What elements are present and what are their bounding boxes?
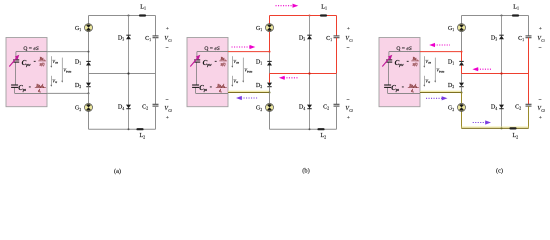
diode D1 [459,61,464,65]
svg-text:(c): (c) [496,168,503,175]
capacitor C2 [334,104,340,106]
wire: internal lead of transducer [15,52,16,94]
wire: left column node A up to top rail [269,16,271,52]
label C2 [323,104,329,111]
wire: D1 to mid node [269,66,271,74]
node B junction [88,92,90,94]
label D4 [491,104,497,111]
wire: node B down to bottom rail [269,93,271,130]
junction: bottom rail / D4 column [501,127,503,129]
label D3 [491,34,497,41]
voltage label Vcm with arrow [231,56,239,68]
current flow arrow along top rail [276,4,299,8]
svg-text:z(t): z(t) [412,63,419,67]
value label Cpw = Bz1/z(t) [203,57,227,67]
label C2 [142,104,148,111]
wire: top rail down to C1 [528,16,530,36]
wire: bottom rail [462,127,529,128]
output voltage label VC2 [537,97,545,120]
wire: node B down to bottom rail [88,93,90,129]
diode D4 [126,105,131,109]
wire: top rail [89,15,156,17]
label G1 [256,25,262,32]
capacitor C1 [526,36,532,38]
wire: box edge to node A [228,51,270,53]
inductor L2 [136,128,143,130]
wire: box edge to node B [47,92,89,94]
current source G2 [266,103,274,111]
label Q = eS [396,46,411,52]
junction: mid rail / D column [127,72,129,74]
wire: top rail [270,15,337,17]
wire: top rail down to C1 [155,16,157,36]
output voltage label VC1 [537,26,545,52]
value label Cps = Bz0d1/dc [18,84,46,94]
current source G1 [458,24,466,32]
wire: C1 down to mid rail [155,38,157,74]
diode D2 [267,83,272,87]
inductor L2 [317,128,324,130]
junction: bottom rail / D4 column [128,128,130,130]
label D2 [256,82,262,89]
diode D4 [499,105,504,109]
wire: mid rail [462,73,529,75]
voltage label Vtrans with arrow [242,58,252,83]
label D3 [299,34,305,41]
svg-text:+: + [539,115,542,121]
label G2 [256,105,262,112]
label C1 [145,35,151,42]
voltage label Vcs with arrow [50,76,57,87]
wire: top rail [462,15,529,17]
label L1 [321,3,327,10]
wire: left column node A up to top rail [88,16,90,52]
capacitor Cpw (variable) [190,55,200,67]
svg-text:−: − [346,97,349,103]
wire: mid rail down to C2 [336,74,338,105]
transducer block c: pink box [379,38,420,107]
diode D3 [126,35,131,39]
svg-text:=: = [34,60,36,64]
label L1 [513,3,519,10]
inductor L2 [509,127,516,129]
node B junction [461,92,463,94]
output voltage label VC2 [164,97,172,120]
wire: bottom rail [89,128,156,130]
label G2 [75,105,81,112]
wire: C2 down to bottom rail [336,106,338,129]
svg-text:z(t): z(t) [39,63,46,67]
voltage label Vcs with arrow [231,76,238,87]
current source G1 [85,24,93,32]
output voltage label VC1 [164,26,172,52]
output voltage label VC1 [345,26,353,52]
svg-text:+: + [539,26,542,32]
wire: box edge to node A [420,51,462,53]
wire: D4 column mid to bottom rail [501,74,503,129]
svg-text:=: = [29,86,31,90]
junction: bottom rail / D4 column [309,128,311,130]
label Q = eS [204,46,219,52]
svg-text:−: − [538,97,541,103]
svg-text:=: = [402,86,404,90]
current flow arrow return on mid rail [279,76,298,80]
junction: mid rail / D column [500,72,502,74]
node A junction [88,51,90,53]
label D1 [75,58,81,65]
svg-text:−: − [165,46,168,52]
transducer block a: pink box [6,38,47,107]
svg-text:z(t): z(t) [220,63,227,67]
label C1 [518,35,524,42]
junction: top rail / D3 column [128,15,130,17]
wire: D1 to mid node [461,66,463,74]
junction: top rail / D3 column [309,15,311,17]
current source G2 [458,103,466,111]
wire: mid rail [270,73,337,75]
wire: mid node to D2 [461,74,463,83]
label L2 [513,132,519,139]
wire: node A to D1 [269,52,271,62]
wire: internal lead of transducer [388,52,389,94]
label D4 [299,104,305,111]
output voltage label VC2 [345,97,353,120]
caption (b) [302,167,309,174]
wire: top rail down to C1 [336,16,338,36]
caption (a) [114,168,121,175]
value label Cpw = Bz1/z(t) [395,57,419,67]
label Q = eS [23,46,38,52]
junction: top rail / D3 column [501,15,503,17]
wire: D3 column top rail to mid [501,16,503,74]
svg-text:+: + [166,26,169,32]
svg-text:=: = [407,60,409,64]
wire: node B down to bottom rail [461,93,463,129]
wire: node A to D1 [461,52,463,62]
label G2 [448,105,454,112]
wire: node A to D1 [88,52,90,62]
current flow arrow return to transducer [236,96,258,100]
label L2 [321,132,327,139]
label C2 [515,104,521,111]
inductor L1 [512,14,519,16]
value label Cps = Bz0d1/dc [391,84,419,94]
svg-text:=: = [215,60,217,64]
label D4 [118,104,124,111]
wire: internal lead of transducer [196,52,197,94]
capacitor C2 [153,104,159,106]
wire: transducer top terminal (inside box) [389,51,420,53]
wire: C1 down to mid rail [528,38,530,74]
label C1 [326,35,332,42]
wire: D4 column mid to bottom rail [128,74,130,130]
wire: D2 to node B [461,87,463,93]
diode D2 [86,83,91,87]
label G1 [448,25,454,32]
wire: D1 to mid node [88,66,90,74]
wire: box edge to node B [228,91,270,92]
wire: D4 column mid to bottom rail [309,74,311,130]
wire: mid node to D2 [88,74,90,83]
current flow arrow along mid rail [472,67,492,71]
wire: C2 down to bottom rail [528,106,530,128]
inductor L1 [139,14,146,16]
svg-text:+: + [347,115,350,121]
wire: bottom rail [270,128,337,130]
capacitor Cpw (variable) [9,55,19,67]
diode D4 [307,105,312,109]
svg-text:−: − [165,97,168,103]
voltage label Vtrans with arrow [434,58,444,83]
wire: transducer bottom terminal (inside box) [388,92,420,94]
node A junction [269,51,271,53]
current source G1 [266,24,274,32]
diode D3 [307,35,312,39]
diode D3 [499,35,504,39]
label D2 [75,82,81,89]
voltage label Vcm with arrow [50,56,58,68]
wire: transducer bottom terminal (inside box) [196,92,228,94]
label G1 [75,25,81,32]
junction: mid rail / D column [308,72,310,74]
voltage label Vcm with arrow [423,56,431,68]
wire: C1 down to mid rail [336,38,338,74]
value label Cpw = Bz1/z(t) [22,57,46,67]
wire: box edge to node A [47,51,89,53]
capacitor C1 [153,36,159,38]
wire: transducer top terminal (inside box) [197,51,228,53]
wire: D2 to node B [269,87,271,93]
svg-text:+: + [166,115,169,121]
wire: transducer top terminal (inside box) [16,51,47,53]
wire: D3 column top rail to mid [309,16,311,74]
capacitor Cps [11,85,18,87]
current flow arrow into node A [232,45,256,49]
wire: mid rail [89,73,156,75]
wire: mid node to D2 [269,74,271,83]
label D1 [448,58,454,65]
capacitor Cps [192,85,199,87]
diode D1 [267,61,272,65]
current flow arrow out of transducer bottom [426,96,448,100]
svg-text:=: = [210,86,212,90]
capacitor Cpw (variable) [382,55,392,67]
wire: D3 column top rail to mid [128,16,130,74]
wire: transducer bottom terminal (inside box) [15,92,47,94]
caption (c) [496,168,503,175]
label L1 [140,3,146,10]
inductor L1 [320,14,327,16]
label D1 [256,58,262,65]
node A junction [461,51,463,53]
diode D2 [459,83,464,87]
svg-text:−: − [538,46,541,52]
transducer block b: pink box [187,38,228,107]
diode D1 [86,61,91,65]
wire: box edge to node B [420,91,462,92]
label D3 [118,34,124,41]
wire: D2 to node B [88,87,90,94]
label D2 [448,82,454,89]
capacitor Cps [384,85,391,87]
svg-text:+: + [347,26,350,32]
voltage label Vtrans with arrow [61,58,71,83]
label L2 [140,132,146,139]
current source G2 [85,103,93,111]
wire: left column node A up to top rail [461,16,463,52]
svg-text:(b): (b) [302,167,309,174]
current flow arrow into transducer top [429,43,450,47]
capacitor C2 [526,104,532,106]
wire: C2 down to bottom rail [155,106,157,129]
svg-text:(a): (a) [114,168,121,175]
voltage label Vcs with arrow [423,76,430,87]
current flow arrow along bottom rail [473,120,491,124]
wire: mid rail down to C2 [528,74,530,105]
node B junction [269,92,271,94]
svg-text:−: − [346,46,349,52]
value label Cps = Bz0d1/dc [199,84,227,94]
wire: mid rail down to C2 [155,74,157,105]
capacitor C1 [334,36,340,38]
